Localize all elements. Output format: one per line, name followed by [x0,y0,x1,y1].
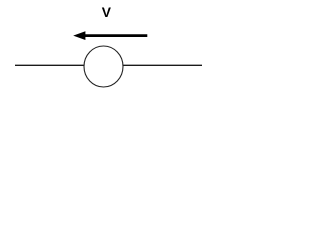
svg-text:V: V [102,5,112,20]
velocity arrow shaft [84,34,147,37]
wire right segment [122,64,202,66]
wire left segment [15,64,85,66]
circle element (source) [84,46,123,87]
velocity arrow head [73,31,85,40]
